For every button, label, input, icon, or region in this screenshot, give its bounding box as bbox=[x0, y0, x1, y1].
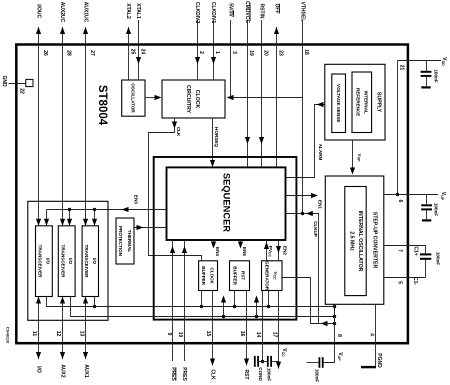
transceiver group box bbox=[28, 201, 108, 320]
pin CLKDIV2 (2) bbox=[194, 2, 204, 80]
svg-text:VUP: VUP bbox=[337, 352, 343, 361]
svg-text:16: 16 bbox=[239, 331, 245, 337]
sequencer box bbox=[167, 167, 286, 240]
svg-text:28: 28 bbox=[66, 50, 72, 56]
svg-text:23: 23 bbox=[277, 50, 283, 56]
svg-text:REFERENCE: REFERENCE bbox=[355, 88, 360, 116]
I/O transceiver box 1 bbox=[36, 226, 53, 297]
svg-text:RSTIN: RSTIN bbox=[259, 4, 265, 19]
svg-text:VOLTAGE SENSE: VOLTAGE SENSE bbox=[336, 84, 341, 122]
svg-text:ALARM: ALARM bbox=[318, 144, 323, 161]
svg-text:VUP: VUP bbox=[356, 154, 362, 163]
pin VTHSEL (18) / wire to CLKUP node bbox=[300, 2, 309, 214]
RST buffer box bbox=[230, 261, 250, 307]
svg-text:2.5 MHz: 2.5 MHz bbox=[348, 231, 354, 251]
svg-text:EN5: EN5 bbox=[242, 247, 247, 256]
oscillator box bbox=[122, 80, 145, 116]
pin RST (16) bbox=[239, 291, 249, 380]
capacitor COND bbox=[254, 356, 263, 382]
svg-text:20: 20 bbox=[262, 50, 268, 56]
chip border bbox=[16, 45, 408, 344]
svg-text:25: 25 bbox=[130, 49, 136, 55]
svg-text:CLKUP: CLKUP bbox=[313, 221, 318, 237]
svg-text:GENERATOR: GENERATOR bbox=[265, 261, 270, 291]
svg-text:100nF: 100nF bbox=[435, 252, 440, 265]
svg-text:CLK: CLK bbox=[176, 127, 181, 137]
wire CLKUP internal oscillator to sequencer bbox=[286, 211, 337, 326]
svg-text:5V/3V: 5V/3V bbox=[228, 3, 234, 17]
svg-text:CLOCK: CLOCK bbox=[194, 90, 200, 109]
bus rail B bbox=[71, 297, 337, 319]
svg-text:27: 27 bbox=[89, 50, 95, 56]
pin CMDVCC (19) bbox=[244, 1, 254, 167]
svg-text:26: 26 bbox=[42, 50, 48, 56]
svg-text:XTAL1: XTAL1 bbox=[135, 3, 141, 19]
svg-text:CMDVCC: CMDVCC bbox=[244, 1, 250, 23]
svg-text:VDD: VDD bbox=[441, 57, 447, 66]
pin PGND (4) with ground bbox=[361, 304, 382, 368]
svg-text:22: 22 bbox=[19, 88, 25, 94]
pin VDD (21) bbox=[398, 57, 448, 70]
svg-text:1: 1 bbox=[214, 51, 220, 54]
wire EN3 sequencer to transceivers bbox=[44, 195, 167, 226]
I/O transceiver box 2 bbox=[58, 226, 75, 297]
svg-text:7: 7 bbox=[397, 249, 403, 252]
clock buffer box bbox=[199, 261, 218, 307]
svg-text:12: 12 bbox=[55, 331, 61, 337]
internal oscillator 2.5 MHz box bbox=[345, 187, 366, 296]
svg-text:100nF: 100nF bbox=[434, 203, 439, 216]
step-up converter box bbox=[325, 176, 384, 304]
svg-text:GND: GND bbox=[1, 75, 7, 87]
inner sequencer block frame bbox=[154, 157, 297, 320]
svg-text:CLKDIV2: CLKDIV2 bbox=[194, 2, 200, 24]
svg-text:XTAL2: XTAL2 bbox=[125, 3, 131, 19]
svg-text:2: 2 bbox=[198, 51, 204, 54]
svg-text:100nF: 100nF bbox=[433, 69, 438, 82]
wire oscillator to clock circuitry bbox=[145, 95, 162, 100]
svg-text:AUX1: AUX1 bbox=[83, 364, 89, 378]
pin VUP (6) bbox=[384, 192, 446, 203]
pin PRES (10) bbox=[177, 240, 187, 381]
svg-text:AUX2UC: AUX2UC bbox=[59, 2, 65, 23]
wire EN1 sequencer to step-up converter bbox=[286, 193, 323, 210]
svg-text:STEP-UP CONVERTER: STEP-UP CONVERTER bbox=[372, 212, 378, 269]
pin C1- (5) bbox=[384, 277, 426, 285]
svg-text:EN3: EN3 bbox=[133, 195, 138, 204]
pin AUX1 (13) bbox=[78, 297, 89, 378]
svg-text:CLK: CLK bbox=[209, 369, 215, 380]
svg-text:17: 17 bbox=[271, 332, 277, 338]
wire rail B arrow to clock buffer bbox=[221, 296, 226, 317]
svg-text:PROTECTION: PROTECTION bbox=[118, 226, 123, 257]
svg-text:EN1: EN1 bbox=[317, 200, 322, 209]
svg-text:RST: RST bbox=[243, 370, 249, 380]
svg-text:5: 5 bbox=[396, 281, 402, 284]
svg-text:100nF: 100nF bbox=[267, 368, 272, 381]
Vcc generator box bbox=[262, 261, 335, 324]
svg-text:I/O: I/O bbox=[45, 258, 50, 265]
pin OFF (23) bbox=[274, 4, 284, 168]
pin I/OUC (26) bbox=[36, 4, 49, 226]
svg-text:3: 3 bbox=[231, 51, 237, 54]
svg-text:4: 4 bbox=[368, 333, 374, 336]
svg-text:I/OUC: I/OUC bbox=[36, 4, 42, 18]
pin XTAL2 (25) bbox=[125, 3, 136, 80]
svg-text:PRES: PRES bbox=[170, 367, 176, 381]
svg-text:CIRCUITRY: CIRCUITRY bbox=[185, 85, 191, 114]
svg-text:100nF: 100nF bbox=[315, 369, 320, 382]
svg-text:EN4: EN4 bbox=[215, 247, 220, 256]
svg-text:PRES: PRES bbox=[181, 367, 187, 381]
svg-text:INTERNAL: INTERNAL bbox=[363, 91, 368, 114]
svg-text:INTERNAL OSCILLATOR: INTERNAL OSCILLATOR bbox=[357, 211, 363, 272]
svg-text:TRANSCEIVER: TRANSCEIVER bbox=[60, 245, 65, 279]
wire ALARM supply to sequencer bbox=[286, 102, 325, 178]
pin AUX2 (12) bbox=[55, 297, 66, 378]
svg-text:TRANSCEIVER: TRANSCEIVER bbox=[84, 245, 89, 279]
svg-text:HORSEQ: HORSEQ bbox=[214, 127, 219, 147]
svg-text:ST8004: ST8004 bbox=[96, 85, 108, 126]
svg-text:VUP: VUP bbox=[440, 192, 446, 201]
capacitor 100nF on VUP bbox=[421, 195, 438, 222]
voltage sense box bbox=[332, 74, 346, 133]
svg-text:18: 18 bbox=[303, 49, 309, 55]
svg-text:19: 19 bbox=[248, 50, 254, 56]
wire VDD rail down to VUP line bbox=[396, 61, 399, 197]
svg-text:6: 6 bbox=[397, 200, 403, 203]
svg-text:AUX1UC: AUX1UC bbox=[83, 2, 89, 23]
svg-text:EN2: EN2 bbox=[283, 246, 288, 255]
svg-text:I/O: I/O bbox=[68, 258, 73, 265]
pin GND (22) with pad square bbox=[1, 75, 33, 94]
pin AUX2UC (28) bbox=[59, 2, 71, 226]
I/O transceiver box 3 bbox=[82, 226, 98, 297]
svg-text:SUPPLY: SUPPLY bbox=[376, 92, 382, 113]
wire 5V/3V net into clock circuitry bbox=[227, 95, 303, 100]
svg-text:CLKDIV1: CLKDIV1 bbox=[210, 2, 216, 24]
pin VCC (17) bbox=[271, 291, 287, 369]
svg-text:9: 9 bbox=[166, 333, 172, 336]
svg-text:SEQUENCER: SEQUENCER bbox=[222, 173, 232, 232]
wire HORSEQ clock circuitry to sequencer bbox=[210, 118, 219, 167]
pin 5V/3V (3) bbox=[228, 3, 238, 97]
pin C1+ (7) with flying capacitor 100nF bbox=[384, 246, 441, 278]
svg-text:VCC: VCC bbox=[281, 348, 287, 357]
node EN4 bbox=[211, 240, 220, 256]
svg-text:TRANSCEIVER: TRANSCEIVER bbox=[38, 245, 43, 279]
svg-text:RST: RST bbox=[241, 271, 246, 280]
svg-text:14: 14 bbox=[255, 332, 261, 338]
wire PVcc generator to sequencer bbox=[264, 240, 273, 261]
wire rail B arrow to RST buffer bbox=[254, 296, 259, 317]
svg-text:13: 13 bbox=[78, 331, 84, 337]
svg-text:OSCILLATOR: OSCILLATOR bbox=[131, 83, 136, 113]
wire thermal protection to sequencer bbox=[134, 225, 167, 230]
svg-text:VTHSEL: VTHSEL bbox=[300, 2, 306, 22]
svg-text:10: 10 bbox=[177, 332, 183, 338]
svg-text:15: 15 bbox=[205, 331, 211, 337]
capacitor 100nF on VDD bbox=[421, 61, 439, 89]
svg-text:PVCC: PVCC bbox=[268, 246, 274, 258]
pin 14 with COND capacitor bbox=[255, 291, 264, 364]
svg-text:BUFFER: BUFFER bbox=[201, 266, 206, 285]
bus VCC rail A bbox=[47, 297, 337, 309]
pin RSTIN (20) bbox=[259, 4, 269, 168]
svg-text:OFF: OFF bbox=[274, 4, 280, 14]
svg-text:THERMAL: THERMAL bbox=[127, 230, 132, 253]
svg-text:CLOCK: CLOCK bbox=[209, 267, 214, 284]
svg-text:BUFFER: BUFFER bbox=[232, 266, 237, 285]
pin XTAL1 (24) bbox=[135, 3, 146, 80]
pin I/O (11) bbox=[31, 297, 42, 373]
svg-text:11: 11 bbox=[31, 331, 37, 337]
svg-text:COND: COND bbox=[258, 367, 263, 381]
pin CLKDIV1 (1) bbox=[210, 2, 220, 80]
capacitor 100nF on card VCC bbox=[263, 356, 279, 381]
pin PRES-bar (9) bbox=[166, 240, 176, 381]
thermal protection box bbox=[116, 218, 134, 264]
svg-text:I/O: I/O bbox=[35, 366, 41, 373]
wire Vup supply to step-up converter bbox=[350, 140, 362, 175]
clock circuitry box bbox=[162, 80, 225, 118]
pin VUP (8) with 100nF capacitor bbox=[307, 304, 344, 382]
node CLK stub bbox=[149, 118, 202, 261]
internal reference box bbox=[352, 72, 372, 133]
svg-text:VCC: VCC bbox=[273, 272, 279, 281]
svg-text:21: 21 bbox=[398, 65, 404, 71]
svg-text:I/O: I/O bbox=[92, 258, 97, 265]
svg-text:24: 24 bbox=[140, 49, 146, 55]
supply block bbox=[325, 64, 385, 140]
svg-text:C1-: C1- bbox=[412, 277, 418, 285]
svg-text:C1+: C1+ bbox=[413, 246, 419, 255]
wire EN2 sequencer to generator bbox=[276, 240, 288, 261]
svg-text:8: 8 bbox=[336, 334, 342, 337]
pin CLK (15) bbox=[205, 291, 215, 381]
svg-text:AUX2: AUX2 bbox=[60, 364, 66, 378]
svg-text:CS48110: CS48110 bbox=[6, 327, 11, 344]
svg-text:PGND: PGND bbox=[376, 353, 382, 368]
pin AUX1UC (27) bbox=[83, 2, 96, 226]
node EN5 bbox=[238, 240, 247, 256]
